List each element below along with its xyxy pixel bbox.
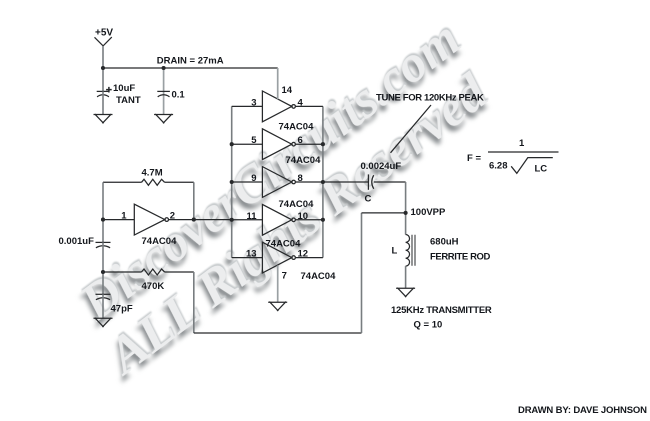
ground below C2 <box>154 114 173 123</box>
wire pin 12 output <box>296 257 323 259</box>
svg-text:14: 14 <box>282 85 293 96</box>
wire C3 to RC node <box>102 242 104 272</box>
node RC junction <box>101 270 105 274</box>
formula fraction bar <box>488 151 559 153</box>
pin 7 ground stem <box>277 265 279 302</box>
svg-text:680uH: 680uH <box>430 237 459 248</box>
svg-text:0.1: 0.1 <box>172 90 186 101</box>
wire pin 8 output <box>296 181 323 183</box>
node input bus junction <box>230 142 234 146</box>
svg-text:100VPP: 100VPP <box>411 207 447 218</box>
node pin2 junction <box>192 218 196 222</box>
node 100VPP junction <box>404 211 408 215</box>
svg-text:DRAIN = 27mA: DRAIN = 27mA <box>157 56 224 67</box>
wire R2 right <box>165 271 194 273</box>
svg-text:74AC04: 74AC04 <box>286 155 322 166</box>
wire input bus <box>231 106 233 257</box>
svg-text:FERRITE ROD: FERRITE ROD <box>430 252 491 263</box>
ground pin 7 <box>268 302 287 311</box>
wire to tank node <box>362 212 406 214</box>
wire to C3 <box>102 220 104 243</box>
svg-text:7: 7 <box>282 270 287 281</box>
op-amp U1A inverter 74AC04 <box>134 204 165 235</box>
inverter U1 13-12 74AC04 <box>262 242 291 273</box>
wire feedback top left <box>103 181 142 183</box>
wire bottom feedback run <box>194 332 362 334</box>
formula sqrt symbol <box>511 158 553 174</box>
node output bus junction <box>321 142 325 146</box>
wire R2 drop <box>193 272 195 333</box>
svg-text:+5V: +5V <box>95 28 113 39</box>
svg-text:74AC04: 74AC04 <box>301 271 337 282</box>
svg-text:F =: F = <box>467 153 481 164</box>
svg-text:6.28: 6.28 <box>489 161 508 172</box>
svg-text:0.001uF: 0.001uF <box>59 236 95 247</box>
wire DRAIN rail <box>103 67 278 69</box>
inverter U1 5-6 74AC04 <box>262 129 291 160</box>
node output bus junction <box>321 180 325 184</box>
node input bus junction <box>230 180 234 184</box>
inductor L1 680uH coil <box>406 235 410 267</box>
wire pin 1 input <box>103 219 134 221</box>
wire pin 13 input <box>232 257 263 259</box>
wire pin 9 input <box>232 181 263 183</box>
svg-text:74AC04: 74AC04 <box>142 236 178 247</box>
svg-text:0.0024uF: 0.0024uF <box>361 161 402 172</box>
wire pin 6 output <box>296 143 323 145</box>
wire node to L1 <box>405 213 407 235</box>
inverter U1 3-4 74AC04 <box>262 91 291 122</box>
svg-text:125KHz TRANSMITTER: 125KHz TRANSMITTER <box>391 305 492 316</box>
svg-text:LC: LC <box>535 164 548 175</box>
svg-text:1: 1 <box>519 138 525 149</box>
svg-text:Q = 10: Q = 10 <box>414 320 443 331</box>
svg-text:1: 1 <box>121 211 127 222</box>
resistor R1 4.7M <box>142 179 165 185</box>
wire +5V stem <box>102 46 104 68</box>
+5V power symbol <box>95 37 112 46</box>
svg-text:5: 5 <box>251 135 257 146</box>
svg-text:74AC04: 74AC04 <box>279 122 315 133</box>
svg-text:4.7M: 4.7M <box>142 168 163 179</box>
svg-text:470K: 470K <box>142 281 165 292</box>
wire pin 2 output <box>169 219 232 221</box>
inverter U1 9-8 74AC04 <box>262 167 291 198</box>
svg-text:TUNE FOR 120KHz PEAK: TUNE FOR 120KHz PEAK <box>376 92 484 103</box>
svg-text:13: 13 <box>246 249 257 260</box>
ground below C1 <box>94 114 113 123</box>
wire bus to C5 <box>323 181 368 183</box>
wire C1 to ground <box>102 91 104 114</box>
svg-text:74AC04: 74AC04 <box>279 199 315 210</box>
wire C4 to ground <box>102 294 104 318</box>
node output bus junction <box>321 218 325 222</box>
wire C5 to corner <box>374 181 406 183</box>
svg-text:9: 9 <box>251 173 256 184</box>
svg-text:DRAWN BY: DAVE JOHNSON: DRAWN BY: DAVE JOHNSON <box>518 405 647 416</box>
wire output bus <box>322 106 324 257</box>
wire bottom feedback rise <box>361 213 363 333</box>
ground below C4 <box>94 318 113 327</box>
wire pin 5 input <box>232 143 263 145</box>
tune annotation pointer line <box>391 105 432 153</box>
resistor R2 470K <box>142 269 165 275</box>
svg-text:3: 3 <box>251 97 256 108</box>
wire corner down to node <box>405 182 407 213</box>
wire feedback top right <box>165 181 194 183</box>
pin stem 0.1 cap <box>163 68 165 115</box>
wire RC to R2 <box>103 271 142 273</box>
C1 polarity plus <box>106 87 112 93</box>
pin 14 power stem <box>277 68 279 99</box>
capacitor C5 0.0024uF <box>367 174 369 189</box>
capacitor C4 47pF <box>96 293 111 295</box>
ground below L1 <box>396 288 415 297</box>
svg-text:47pF: 47pF <box>111 304 133 315</box>
capacitor C3 0.001uF <box>96 241 111 243</box>
capacitor C1 10uF TANT <box>97 90 110 92</box>
svg-text:10uF: 10uF <box>113 83 135 94</box>
node VCC junction <box>101 66 105 70</box>
wire pin 4 output <box>296 105 323 107</box>
node input bus junction <box>230 218 234 222</box>
svg-text:L: L <box>392 246 398 257</box>
wire RC to C4 <box>102 272 104 294</box>
svg-text:11: 11 <box>247 211 258 222</box>
wire L1 to ground <box>405 266 407 288</box>
capacitor C2 0.1 <box>157 90 170 92</box>
svg-text:74AC04: 74AC04 <box>266 239 302 250</box>
node 0.1 cap tap <box>162 66 166 70</box>
wire pin 11 input <box>232 219 263 221</box>
node pin1 junction <box>101 218 105 222</box>
svg-text:TANT: TANT <box>116 95 141 106</box>
wire feedback right drop <box>193 182 195 219</box>
wire pin 10 output <box>296 219 323 221</box>
svg-text:C: C <box>365 194 372 205</box>
inverter U1 11-10 74AC04 <box>262 204 291 235</box>
wire to C1 <box>102 68 104 91</box>
wire feedback left drop <box>102 182 104 219</box>
L1 ferrite core lines <box>412 235 415 266</box>
wire pin 3 input <box>232 105 263 107</box>
